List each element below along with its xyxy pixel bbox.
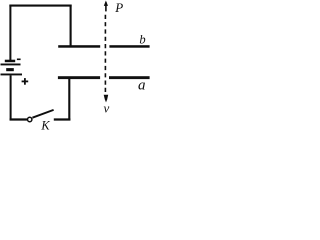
svg-text:v: v bbox=[104, 100, 110, 115]
arrow down at v bbox=[104, 95, 109, 103]
svg-text:K: K bbox=[40, 118, 50, 132]
switch K bbox=[28, 110, 54, 122]
battery plus polarity label bbox=[22, 78, 29, 85]
capacitor plate b right section bbox=[109, 45, 149, 48]
capacitor plate b left section bbox=[58, 45, 100, 48]
particle path dashed line bbox=[104, 15, 106, 92]
wire right vertical down to plate b bbox=[70, 5, 72, 47]
svg-text:P: P bbox=[114, 0, 123, 15]
wire top horizontal bbox=[9, 5, 71, 7]
battery E bbox=[1, 60, 23, 76]
capacitor plate a right section bbox=[109, 76, 150, 79]
svg-text:b: b bbox=[139, 33, 145, 47]
capacitor plate a left section bbox=[58, 76, 100, 79]
arrow up at P bbox=[104, 1, 108, 12]
wire right vertical up to plate a bbox=[68, 79, 70, 121]
wire left vertical upper bbox=[9, 5, 11, 60]
battery minus polarity label bbox=[17, 58, 21, 60]
wire bottom right segment bbox=[54, 118, 71, 120]
svg-text:a: a bbox=[138, 77, 146, 93]
wire left vertical lower bbox=[10, 75, 12, 120]
wire bottom left segment bbox=[10, 118, 27, 120]
